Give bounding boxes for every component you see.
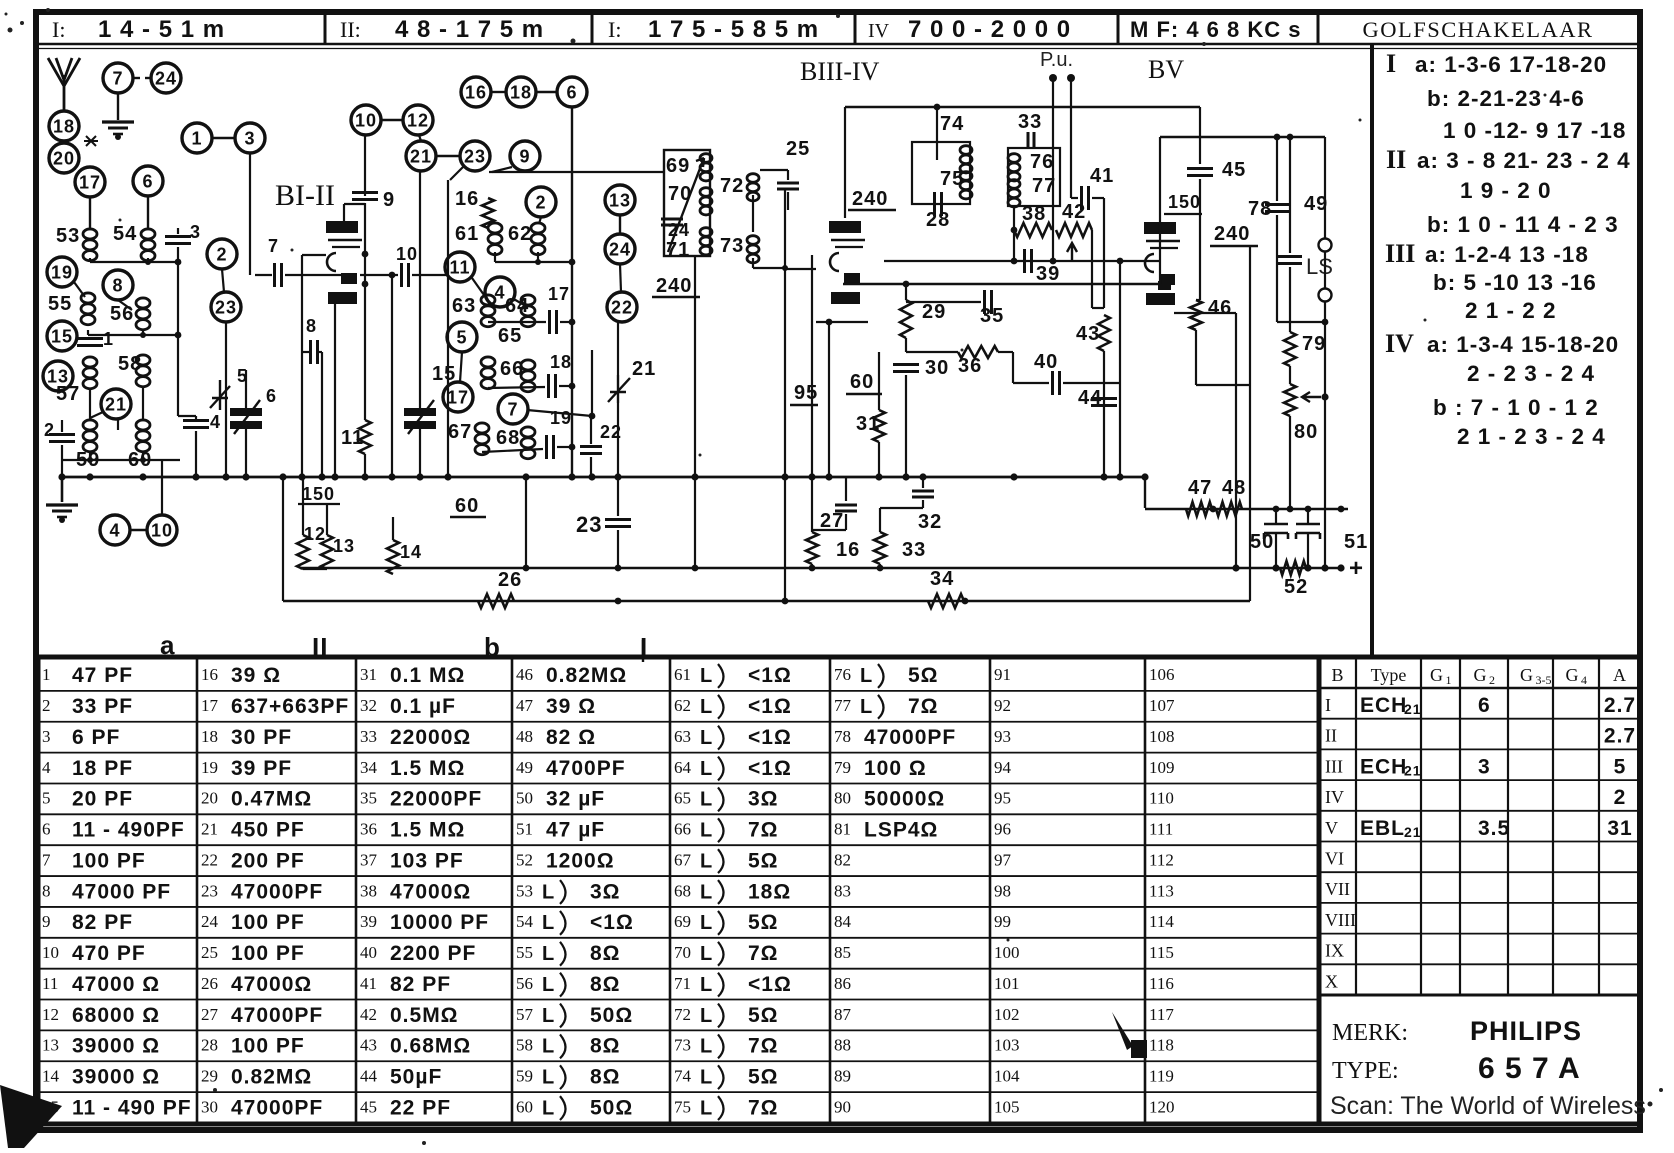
capacitor 19 bbox=[545, 435, 548, 459]
svg-text:PHILIPS: PHILIPS bbox=[1470, 1016, 1582, 1046]
svg-text:58: 58 bbox=[516, 1036, 533, 1055]
svg-text:8Ω: 8Ω bbox=[590, 1035, 621, 1058]
svg-text:8Ω: 8Ω bbox=[590, 1065, 621, 1088]
resistor 52 bbox=[1280, 561, 1306, 575]
capacitor 30 bbox=[893, 363, 919, 366]
IF transformer 2 bbox=[912, 142, 970, 204]
svg-text:35: 35 bbox=[360, 789, 377, 808]
svg-text:14: 14 bbox=[42, 1066, 60, 1085]
capacitor 41 bbox=[1080, 186, 1083, 210]
wire grid row bbox=[249, 153, 251, 275]
svg-text:6: 6 bbox=[142, 171, 153, 191]
svg-text:TYPE:: TYPE: bbox=[1332, 1058, 1399, 1084]
capacitor 18 bbox=[547, 374, 550, 398]
svg-text:5Ω: 5Ω bbox=[748, 1004, 779, 1027]
svg-text:16: 16 bbox=[201, 665, 218, 684]
svg-text:1.5 MΩ: 1.5 MΩ bbox=[390, 757, 465, 780]
contact 8 bbox=[103, 270, 133, 300]
contact 24 bbox=[151, 63, 181, 93]
svg-text:47 µF: 47 µF bbox=[546, 819, 605, 842]
svg-text:33: 33 bbox=[902, 539, 926, 561]
svg-text:65: 65 bbox=[674, 789, 691, 808]
svg-text:18: 18 bbox=[510, 82, 532, 102]
svg-text:50Ω: 50Ω bbox=[590, 1096, 633, 1119]
svg-text:5: 5 bbox=[456, 327, 467, 347]
svg-text:47000PF: 47000PF bbox=[231, 1004, 323, 1027]
svg-text:0.5MΩ: 0.5MΩ bbox=[390, 1004, 459, 1027]
svg-text:10: 10 bbox=[396, 244, 418, 264]
svg-text:47000PF: 47000PF bbox=[231, 880, 323, 903]
contact 2 mid bbox=[526, 187, 556, 217]
svg-text:6 5 7 A: 6 5 7 A bbox=[1478, 1052, 1581, 1085]
svg-text:50: 50 bbox=[516, 789, 533, 808]
svg-text:54: 54 bbox=[113, 223, 137, 245]
wire x1120 screen drop bbox=[1119, 261, 1121, 477]
tube V EBL21 bbox=[1144, 222, 1176, 234]
wire contact3 down bbox=[450, 167, 463, 180]
svg-text:84: 84 bbox=[834, 912, 852, 931]
svg-text:33: 33 bbox=[1018, 111, 1042, 133]
svg-text:10: 10 bbox=[151, 520, 173, 540]
svg-text:8: 8 bbox=[306, 316, 317, 336]
contact 17 mid bbox=[443, 382, 473, 412]
resistor 26 bbox=[478, 594, 514, 608]
svg-text:27: 27 bbox=[201, 1005, 219, 1024]
svg-text:39 Ω: 39 Ω bbox=[231, 664, 281, 687]
svg-text:G: G bbox=[1566, 665, 1579, 685]
capacitor 40 bbox=[1051, 371, 1054, 395]
svg-text:G: G bbox=[1520, 665, 1533, 685]
contact 13 bbox=[43, 361, 73, 391]
contact 7 bbox=[103, 63, 133, 93]
svg-text:a: 1-3-6 17-18-20: a: 1-3-6 17-18-20 bbox=[1415, 52, 1607, 77]
resistor 43 bbox=[1098, 315, 1110, 351]
svg-text:18: 18 bbox=[201, 727, 218, 746]
svg-text:110: 110 bbox=[1149, 789, 1174, 808]
svg-text:2.7: 2.7 bbox=[1604, 725, 1636, 748]
svg-text:3Ω: 3Ω bbox=[748, 788, 779, 811]
svg-text:63: 63 bbox=[674, 727, 691, 746]
svg-text:3.5: 3.5 bbox=[1478, 817, 1510, 840]
svg-text:119: 119 bbox=[1149, 1066, 1174, 1085]
svg-text:2 1 - 2 3 - 2 4: 2 1 - 2 3 - 2 4 bbox=[1457, 424, 1606, 449]
ground below contact 7 bbox=[102, 120, 134, 123]
svg-text:34: 34 bbox=[930, 568, 954, 590]
svg-text:2: 2 bbox=[1489, 673, 1495, 687]
resistor 79 bbox=[1284, 332, 1296, 366]
svg-text:II: II bbox=[1325, 726, 1337, 746]
capacitor 1 bbox=[77, 337, 103, 340]
svg-text:L: L bbox=[542, 912, 555, 934]
svg-text:6: 6 bbox=[566, 82, 577, 102]
svg-text:23: 23 bbox=[576, 512, 602, 537]
svg-text:38: 38 bbox=[1022, 203, 1046, 225]
svg-text:55: 55 bbox=[48, 293, 72, 315]
capacitor 2 left bbox=[49, 433, 75, 436]
svg-text:4700PF: 4700PF bbox=[546, 757, 626, 780]
svg-text:Type: Type bbox=[1371, 665, 1407, 685]
wire avc drop left bbox=[282, 477, 284, 601]
svg-text:21: 21 bbox=[1404, 762, 1422, 778]
svg-text:43: 43 bbox=[1076, 323, 1100, 345]
svg-text:L: L bbox=[700, 1036, 713, 1058]
svg-text:a: 3 - 8 21- 23 - 2 4: a: 3 - 8 21- 23 - 2 4 bbox=[1417, 148, 1631, 173]
svg-text:100 PF: 100 PF bbox=[231, 911, 305, 934]
svg-text:BV: BV bbox=[1148, 55, 1184, 84]
svg-text:32 µF: 32 µF bbox=[546, 788, 605, 811]
IFT1 tuning arrow bbox=[668, 158, 704, 252]
svg-text:38: 38 bbox=[360, 881, 377, 900]
svg-text:23: 23 bbox=[201, 881, 218, 900]
svg-text:95: 95 bbox=[794, 382, 818, 404]
contact 4 mid bbox=[485, 277, 515, 307]
wire 1-3 bbox=[212, 137, 235, 140]
svg-text:61: 61 bbox=[674, 665, 691, 684]
svg-text:11 - 490 PF: 11 - 490 PF bbox=[72, 1096, 192, 1119]
wire anode V top bbox=[1199, 107, 1201, 164]
capacitor 45 bbox=[1187, 167, 1213, 170]
svg-text:11: 11 bbox=[341, 427, 364, 449]
svg-text:51: 51 bbox=[1344, 531, 1368, 553]
svg-text:50Ω: 50Ω bbox=[590, 1004, 633, 1027]
svg-text:B: B bbox=[1331, 665, 1343, 685]
capacitor 78 bbox=[1265, 203, 1289, 206]
wire 6 down bbox=[147, 196, 149, 228]
svg-text:33: 33 bbox=[360, 727, 377, 746]
component table frame bbox=[38, 657, 1319, 1124]
svg-text:29: 29 bbox=[922, 301, 946, 323]
ink blob at cell 118 bbox=[1112, 1012, 1133, 1050]
svg-text:<1Ω: <1Ω bbox=[748, 664, 792, 687]
svg-text:47: 47 bbox=[1188, 477, 1212, 499]
svg-text:46: 46 bbox=[1208, 297, 1232, 319]
svg-text:L: L bbox=[700, 789, 713, 811]
svg-text:19: 19 bbox=[51, 262, 73, 282]
svg-text:10: 10 bbox=[355, 110, 377, 130]
svg-text:97: 97 bbox=[994, 850, 1012, 869]
capacitor 44 bbox=[1091, 397, 1117, 400]
svg-text:6: 6 bbox=[42, 820, 51, 839]
svg-text:0.1 µF: 0.1 µF bbox=[390, 695, 456, 718]
wire y601 bbox=[283, 600, 1250, 602]
svg-text:0.68MΩ: 0.68MΩ bbox=[390, 1035, 471, 1058]
capacitor 10 bbox=[360, 274, 398, 276]
svg-text:120: 120 bbox=[1149, 1097, 1175, 1116]
svg-text:b: 5 -10 13 -16: b: 5 -10 13 -16 bbox=[1433, 270, 1597, 295]
svg-text:2: 2 bbox=[216, 244, 227, 264]
svg-text:26: 26 bbox=[201, 974, 218, 993]
svg-text:19: 19 bbox=[201, 758, 218, 777]
wire hf line to IFT1 bbox=[489, 171, 664, 173]
svg-text:11: 11 bbox=[42, 974, 58, 993]
svg-text:79: 79 bbox=[1302, 333, 1326, 355]
svg-text:II: II bbox=[1386, 145, 1406, 174]
svg-text:67: 67 bbox=[674, 850, 692, 869]
svg-text:VII: VII bbox=[1325, 879, 1350, 899]
wire grid2 row bbox=[884, 260, 1160, 262]
svg-text:21: 21 bbox=[410, 146, 432, 166]
svg-text:70: 70 bbox=[668, 183, 692, 205]
svg-text:Scan: The World of Wireless: Scan: The World of Wireless bbox=[1330, 1092, 1646, 1120]
svg-text:82 PF: 82 PF bbox=[72, 911, 133, 934]
svg-text:12: 12 bbox=[304, 524, 326, 544]
contact 23 left bbox=[211, 292, 241, 322]
svg-text:28: 28 bbox=[926, 209, 950, 231]
svg-text:7Ω: 7Ω bbox=[748, 1035, 779, 1058]
capacitor 32 bbox=[912, 490, 934, 493]
svg-text:4: 4 bbox=[109, 520, 120, 540]
svg-text:41: 41 bbox=[360, 974, 377, 993]
svg-text:56: 56 bbox=[516, 974, 533, 993]
svg-text:19: 19 bbox=[550, 408, 572, 428]
svg-text:44: 44 bbox=[360, 1066, 378, 1085]
svg-text:60: 60 bbox=[455, 495, 479, 517]
svg-text:47 PF: 47 PF bbox=[72, 664, 133, 687]
svg-text:30 PF: 30 PF bbox=[231, 726, 292, 749]
svg-text:+: + bbox=[1349, 555, 1364, 582]
wire 6 down long bbox=[571, 107, 573, 477]
svg-text:1 7 5 - 5 8 5 m: 1 7 5 - 5 8 5 m bbox=[648, 16, 819, 43]
contact 15 bbox=[47, 321, 77, 351]
svg-text:51: 51 bbox=[516, 820, 533, 839]
svg-text:27: 27 bbox=[820, 510, 844, 532]
svg-text:52: 52 bbox=[516, 850, 533, 869]
svg-text:50000Ω: 50000Ω bbox=[864, 788, 945, 811]
svg-text:7Ω: 7Ω bbox=[748, 819, 779, 842]
svg-text:<1Ω: <1Ω bbox=[748, 726, 792, 749]
svg-text:2: 2 bbox=[1614, 786, 1627, 809]
svg-text:21: 21 bbox=[1404, 701, 1422, 717]
contact 2 left bbox=[207, 239, 237, 269]
svg-text:22: 22 bbox=[600, 422, 622, 442]
svg-text:23: 23 bbox=[215, 297, 237, 317]
svg-text:101: 101 bbox=[994, 974, 1020, 993]
svg-text:1 4 - 5 1 m: 1 4 - 5 1 m bbox=[98, 16, 225, 43]
resistor 48 bbox=[1216, 502, 1242, 516]
svg-text:240: 240 bbox=[852, 188, 888, 210]
svg-text:96: 96 bbox=[994, 820, 1011, 839]
svg-text:5: 5 bbox=[1614, 755, 1627, 778]
svg-text:ECH: ECH bbox=[1360, 694, 1407, 717]
tube1 anode feed bbox=[343, 204, 345, 221]
svg-text:1: 1 bbox=[42, 665, 51, 684]
wire right top band bbox=[1160, 136, 1325, 138]
svg-text:68: 68 bbox=[496, 427, 520, 449]
svg-text:<1Ω: <1Ω bbox=[748, 757, 792, 780]
svg-text:X: X bbox=[1325, 971, 1338, 991]
svg-text:14: 14 bbox=[400, 542, 422, 562]
svg-text:31: 31 bbox=[360, 665, 377, 684]
contact 4 bottom bbox=[100, 515, 130, 545]
svg-text:30: 30 bbox=[201, 1097, 218, 1116]
svg-text:b: 1 0 - 11 4 - 2 3: b: 1 0 - 11 4 - 2 3 bbox=[1427, 212, 1619, 237]
svg-text:74: 74 bbox=[674, 1066, 692, 1085]
svg-text:5Ω: 5Ω bbox=[908, 664, 939, 687]
svg-text:31: 31 bbox=[1607, 817, 1632, 840]
contact 24 mid bbox=[605, 234, 635, 264]
component table column lines bbox=[196, 657, 199, 1124]
wire y508 output bbox=[1144, 477, 1146, 508]
svg-text:72: 72 bbox=[720, 175, 744, 197]
svg-text:39: 39 bbox=[360, 912, 377, 931]
wire tube2 cathode drop bbox=[816, 321, 868, 323]
svg-text:450 PF: 450 PF bbox=[231, 819, 305, 842]
contact 23 mid bbox=[460, 141, 490, 171]
svg-text:77: 77 bbox=[1032, 175, 1056, 197]
wire 24 path bbox=[590, 258, 605, 262]
svg-text:LSP4Ω: LSP4Ω bbox=[864, 819, 938, 842]
svg-text:68: 68 bbox=[674, 881, 691, 900]
svg-text:81: 81 bbox=[834, 820, 851, 839]
svg-text:I:: I: bbox=[52, 17, 65, 42]
svg-text:80: 80 bbox=[1294, 421, 1318, 443]
svg-text:50µF: 50µF bbox=[390, 1065, 442, 1088]
svg-text:8: 8 bbox=[112, 275, 123, 295]
wire x526 drop bbox=[525, 477, 527, 568]
svg-text:4: 4 bbox=[42, 758, 51, 777]
wire left column joins bbox=[89, 388, 91, 420]
tube III ECH21 bbox=[829, 221, 861, 233]
svg-text:24: 24 bbox=[609, 239, 631, 259]
contact 13 mid bbox=[605, 185, 635, 215]
golfschakelaar panel divider bbox=[1370, 44, 1374, 657]
svg-text:I: I bbox=[1386, 49, 1396, 78]
svg-text:78: 78 bbox=[1248, 198, 1272, 220]
svg-text:22: 22 bbox=[611, 297, 633, 317]
contact 7 mid bbox=[498, 394, 528, 424]
capacitor 39 bbox=[1023, 249, 1026, 273]
svg-text:17: 17 bbox=[79, 172, 101, 192]
svg-text:7 0 0 - 2 0 0 0: 7 0 0 - 2 0 0 0 bbox=[908, 16, 1071, 43]
IF transformer 3 bbox=[1008, 148, 1060, 206]
svg-text:83: 83 bbox=[834, 881, 851, 900]
svg-text:IV: IV bbox=[1325, 787, 1344, 807]
svg-text:103: 103 bbox=[994, 1036, 1020, 1055]
svg-text:76: 76 bbox=[834, 665, 851, 684]
svg-text:ECH: ECH bbox=[1360, 755, 1407, 778]
svg-text:104: 104 bbox=[994, 1066, 1020, 1085]
svg-text:100 PF: 100 PF bbox=[72, 849, 146, 872]
svg-text:8Ω: 8Ω bbox=[590, 973, 621, 996]
svg-text:21: 21 bbox=[1404, 824, 1422, 840]
svg-text:L: L bbox=[542, 943, 555, 965]
svg-text:77: 77 bbox=[834, 696, 852, 715]
svg-text:2 - 2 3 - 2 4: 2 - 2 3 - 2 4 bbox=[1467, 361, 1595, 386]
wire IFT1 bottom down bbox=[694, 256, 696, 568]
svg-text:48: 48 bbox=[1222, 477, 1246, 499]
svg-text:91: 91 bbox=[994, 665, 1011, 684]
wire contact10 up bbox=[161, 460, 163, 515]
svg-text:4: 4 bbox=[210, 412, 221, 432]
svg-text:200 PF: 200 PF bbox=[231, 849, 305, 872]
svg-text:7Ω: 7Ω bbox=[748, 1096, 779, 1119]
svg-text:36: 36 bbox=[958, 355, 982, 377]
svg-text:31: 31 bbox=[856, 413, 880, 435]
svg-text:52: 52 bbox=[1284, 576, 1308, 598]
svg-text:21: 21 bbox=[105, 394, 127, 414]
svg-text:18Ω: 18Ω bbox=[748, 880, 791, 903]
svg-text:7: 7 bbox=[112, 68, 123, 88]
svg-text:23: 23 bbox=[464, 146, 486, 166]
svg-text:25: 25 bbox=[786, 138, 810, 160]
scan specks bbox=[8, 28, 13, 33]
tube table frame bbox=[1319, 657, 1640, 1124]
wire x592 coupling link bbox=[591, 350, 593, 416]
svg-text:0.82MΩ: 0.82MΩ bbox=[231, 1065, 312, 1088]
tube I ECH21 bbox=[326, 221, 358, 233]
svg-text:7Ω: 7Ω bbox=[908, 695, 939, 718]
svg-text:7: 7 bbox=[42, 850, 51, 869]
svg-text:GOLFSCHAKELAAR: GOLFSCHAKELAAR bbox=[1362, 17, 1593, 42]
svg-text:L: L bbox=[542, 1036, 555, 1058]
svg-text:II:: II: bbox=[340, 17, 361, 42]
wire coil55/56 bottoms bbox=[87, 330, 89, 335]
svg-text:47: 47 bbox=[516, 696, 534, 715]
svg-text:4 8 - 1 7 5 m: 4 8 - 1 7 5 m bbox=[395, 16, 544, 43]
svg-text:VIII: VIII bbox=[1325, 910, 1356, 930]
svg-text:94: 94 bbox=[994, 758, 1012, 777]
svg-text:III: III bbox=[1325, 756, 1343, 776]
svg-text:7Ω: 7Ω bbox=[748, 942, 779, 965]
svg-text:115: 115 bbox=[1149, 943, 1174, 962]
svg-text:b : 7 - 1 0 - 1 2: b : 7 - 1 0 - 1 2 bbox=[1433, 395, 1599, 420]
wire ift3 to grid bbox=[1013, 206, 1015, 261]
capacitor 8 bbox=[309, 340, 312, 364]
capacitor 4 bbox=[183, 419, 209, 422]
svg-text:V: V bbox=[1325, 818, 1338, 838]
svg-text:100 PF: 100 PF bbox=[231, 1035, 305, 1058]
svg-text:88: 88 bbox=[834, 1036, 851, 1055]
resistor 33 bbox=[874, 532, 886, 564]
svg-text:35: 35 bbox=[980, 305, 1004, 327]
contact 5 bbox=[447, 322, 477, 352]
resistor 16b bbox=[806, 532, 818, 564]
svg-text:46: 46 bbox=[516, 665, 533, 684]
svg-text:12: 12 bbox=[42, 1005, 59, 1024]
svg-text:L: L bbox=[542, 1066, 555, 1088]
svg-text:3: 3 bbox=[244, 128, 255, 148]
svg-text:7: 7 bbox=[268, 236, 279, 256]
svg-text:62: 62 bbox=[674, 696, 691, 715]
svg-text:16: 16 bbox=[465, 82, 487, 102]
capacitor 9 bbox=[364, 135, 366, 196]
svg-text:EBL: EBL bbox=[1360, 817, 1405, 840]
svg-text:<1Ω: <1Ω bbox=[748, 973, 792, 996]
svg-text:22000Ω: 22000Ω bbox=[390, 726, 471, 749]
contact 10 bottom bbox=[147, 515, 177, 545]
svg-text:2 1 - 2 2: 2 1 - 2 2 bbox=[1465, 298, 1557, 323]
svg-text:G: G bbox=[1474, 665, 1487, 685]
svg-text:45: 45 bbox=[360, 1097, 377, 1116]
svg-text:18: 18 bbox=[550, 352, 572, 372]
svg-text:43: 43 bbox=[360, 1036, 377, 1055]
svg-text:VI: VI bbox=[1325, 849, 1344, 869]
svg-text:40: 40 bbox=[360, 943, 377, 962]
contact 12 mid bbox=[403, 105, 433, 135]
svg-text:47000 Ω: 47000 Ω bbox=[72, 973, 160, 996]
contact 3 bbox=[235, 123, 265, 153]
wire to tube2 area bbox=[784, 268, 786, 601]
svg-text:L: L bbox=[700, 1005, 713, 1027]
svg-text:105: 105 bbox=[994, 1097, 1020, 1116]
capacitor 23 bottom bbox=[605, 518, 631, 521]
svg-text:28: 28 bbox=[201, 1036, 218, 1055]
svg-text:150: 150 bbox=[302, 484, 335, 504]
svg-text:0.1 MΩ: 0.1 MΩ bbox=[390, 664, 465, 687]
svg-text:IX: IX bbox=[1325, 941, 1344, 961]
svg-text:26: 26 bbox=[498, 569, 522, 591]
svg-text:79: 79 bbox=[834, 758, 851, 777]
